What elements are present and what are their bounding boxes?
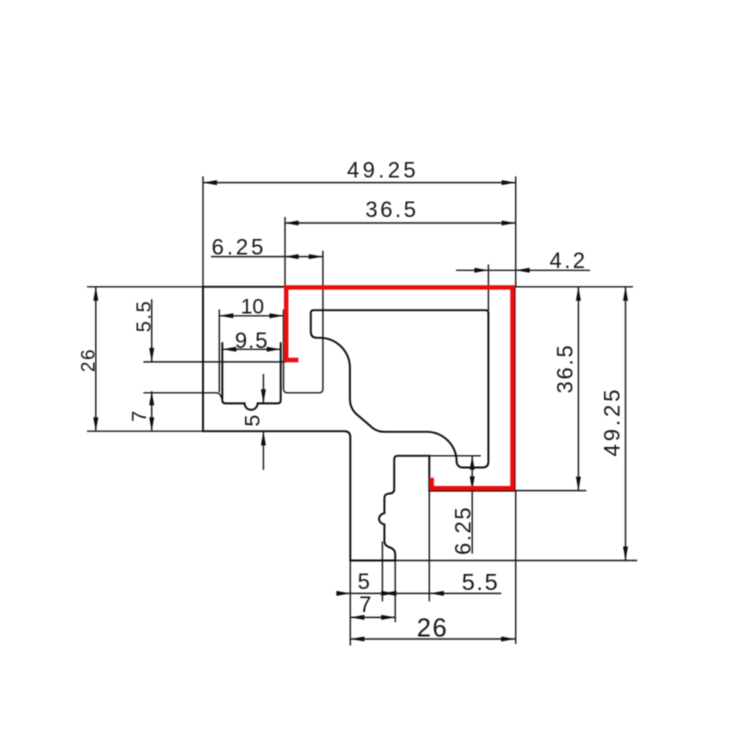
svg-text:26: 26 — [417, 615, 449, 643]
svg-text:49.25: 49.25 — [347, 157, 419, 182]
svg-text:6.25: 6.25 — [212, 235, 267, 260]
svg-text:49.25: 49.25 — [600, 386, 625, 456]
svg-text:10: 10 — [241, 296, 264, 319]
svg-text:7: 7 — [129, 409, 151, 422]
svg-text:5.5: 5.5 — [134, 300, 156, 333]
svg-text:9.5: 9.5 — [235, 328, 269, 353]
svg-text:26: 26 — [79, 348, 100, 372]
svg-text:36.5: 36.5 — [365, 197, 418, 222]
svg-text:7: 7 — [359, 592, 373, 617]
svg-text:5.5: 5.5 — [462, 569, 499, 595]
svg-text:5: 5 — [241, 413, 265, 427]
svg-text:36.5: 36.5 — [553, 343, 578, 393]
svg-text:6.25: 6.25 — [451, 506, 476, 555]
svg-text:4.2: 4.2 — [549, 248, 587, 273]
svg-text:5: 5 — [358, 569, 372, 594]
